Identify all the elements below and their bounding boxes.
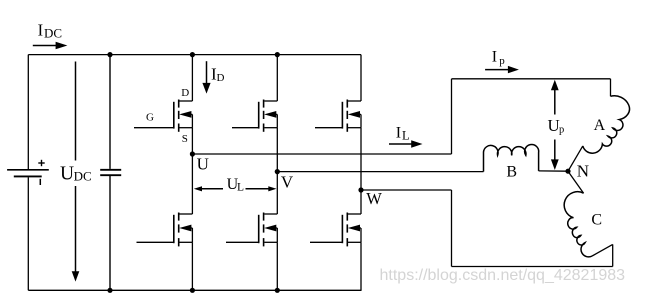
wire node N to winding C — [568, 171, 584, 193]
node U junction dot — [190, 151, 195, 156]
junction dot top rail at capacitor — [107, 52, 112, 57]
wire leg V bottom — [276, 242, 278, 290]
node V junction dot — [275, 169, 280, 174]
current arrow I_L — [389, 140, 423, 147]
wire winding A to node N — [568, 146, 583, 171]
wire phase U horizontal — [192, 153, 451, 155]
svg-text:C: C — [591, 212, 602, 229]
voltage arrow U_DC — [72, 62, 80, 282]
wire leg U middle — [191, 128, 193, 214]
wire motor top — [452, 78, 611, 80]
label I_L — [396, 124, 410, 142]
svg-text:U: U — [197, 154, 209, 173]
svg-text:p: p — [559, 125, 564, 136]
wire leg W middle — [360, 128, 362, 214]
label U_L — [227, 176, 244, 194]
wire motor bottom — [452, 266, 613, 268]
wire winding B to node N — [539, 170, 568, 172]
wire motor right riser — [612, 244, 614, 266]
transistor Q4 — [137, 213, 193, 247]
svg-text:I: I — [492, 49, 497, 66]
svg-text:S: S — [182, 133, 188, 145]
current arrow I_D — [202, 61, 210, 93]
inductor winding C — [564, 192, 592, 257]
svg-text:N: N — [577, 162, 589, 181]
wire left bus upper segment — [27, 55, 29, 170]
label I_p — [492, 49, 505, 67]
wire phase W drop — [451, 190, 453, 267]
transistor Q5 — [226, 213, 277, 247]
wire bottom DC bus rail — [28, 289, 361, 291]
wire leg U drain — [191, 55, 193, 101]
svg-text:L: L — [237, 182, 244, 194]
label I_DC — [38, 20, 62, 40]
wire leg V middle — [276, 128, 278, 214]
voltage arrow U_p — [551, 80, 559, 170]
current arrow I_p — [485, 66, 519, 73]
transistor Q6 — [310, 213, 361, 247]
junction dot bottom rail at capacitor — [107, 288, 112, 293]
wire leg W bottom — [360, 242, 362, 290]
node W junction dot — [358, 187, 363, 192]
junction dot bottom rail leg U — [190, 288, 195, 293]
svg-text:D: D — [181, 87, 189, 99]
junction dot bottom rail leg V — [275, 288, 280, 293]
battery V1 — [7, 160, 49, 185]
wire left bus lower segment — [27, 177, 29, 290]
wire phase U riser — [451, 79, 453, 154]
svg-text:U: U — [60, 164, 74, 185]
svg-text:I: I — [38, 20, 44, 39]
node N junction dot — [565, 169, 570, 174]
wire leg U bottom — [191, 242, 193, 290]
label U_DC — [60, 164, 92, 185]
svg-text:I: I — [396, 124, 401, 141]
svg-text:G: G — [146, 111, 154, 123]
svg-text:DC: DC — [44, 26, 62, 41]
junction dot top rail leg V — [275, 52, 280, 57]
wire top DC bus rail — [28, 54, 361, 56]
label U_p — [548, 116, 565, 136]
label I_D — [211, 65, 225, 85]
transistor Q1 — [134, 100, 192, 132]
transistor Q2 — [232, 100, 277, 132]
svg-text:V: V — [281, 173, 294, 192]
svg-text:L: L — [402, 129, 410, 143]
svg-text:U: U — [548, 116, 560, 135]
wire leg V drain — [276, 55, 278, 101]
svg-text:B: B — [506, 164, 517, 181]
inductor winding A — [583, 96, 630, 153]
svg-text:DC: DC — [74, 168, 92, 183]
wire leg W drain — [360, 55, 362, 101]
transistor Q3 — [315, 100, 361, 132]
inductor winding B — [484, 144, 539, 171]
svg-text:p: p — [499, 55, 505, 67]
wire phase W horizontal — [361, 189, 452, 191]
svg-text:D: D — [217, 72, 225, 84]
svg-text:https://blog.csdn.net/qq_42821: https://blog.csdn.net/qq_42821983 — [380, 267, 626, 284]
svg-text:A: A — [594, 117, 606, 134]
capacitor C1 — [100, 55, 121, 291]
current arrow I_DC — [33, 42, 68, 50]
junction dot top rail leg U — [190, 52, 195, 57]
svg-text:W: W — [366, 189, 382, 208]
voltage arrow U_L — [194, 186, 277, 191]
wire phase V horizontal — [277, 171, 483, 173]
wire winding A entry — [610, 79, 612, 97]
wire winding C tail diagonal — [592, 244, 613, 256]
